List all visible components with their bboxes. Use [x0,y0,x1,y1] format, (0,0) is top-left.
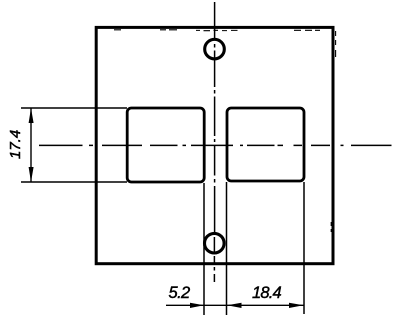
sketch artifact under top edge center [196,29,238,31]
arrow 18.4 right [289,303,304,308]
sketch artifact inside right edge lower [330,222,332,232]
arrow 17.4 up [29,108,34,123]
arrow 5.2 right-pointing [190,303,204,308]
dimension line 17.4 vertical [30,108,32,182]
extension line left-cutout right edge [203,183,205,315]
hole bottom [205,233,225,253]
cutout left [127,108,204,182]
svg-text:5.2: 5.2 [169,284,191,302]
svg-text:17.4: 17.4 [7,130,24,159]
centerline horizontal [39,144,392,146]
centerline vertical [213,2,215,282]
arrow 17.4 down [29,167,34,182]
dimension line bottom [166,304,304,306]
hole top [205,39,225,59]
arrow 18.4 left [227,303,242,308]
extension line right-cutout right edge [303,182,305,314]
extension line right-cutout left edge [226,182,228,315]
cutout right [227,108,304,181]
sketch artifact under top edge left [114,29,177,31]
plate outline [96,27,333,263]
sketch artifact under top edge right [294,29,320,31]
extension line top of cutouts [21,107,127,109]
sketch artifact inside right edge [335,31,337,57]
svg-text:18.4: 18.4 [252,284,282,302]
extension line bottom of cutouts [21,181,127,183]
